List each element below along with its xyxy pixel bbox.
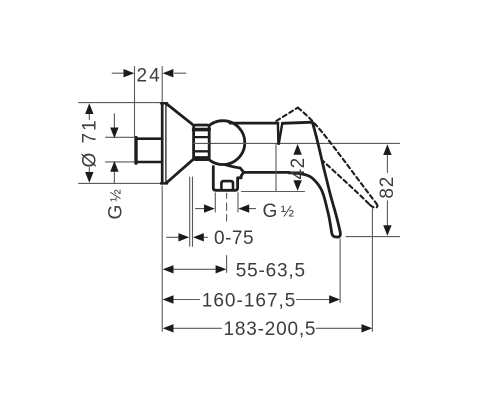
escutcheon cone <box>166 104 193 183</box>
valve body dome circle <box>201 121 245 165</box>
extension line outlet center bottom <box>226 256 228 273</box>
dimension 0-75 <box>167 177 255 249</box>
dimension diameter 71 left <box>79 103 160 184</box>
handle lever solid <box>282 122 340 237</box>
svg-text:42: 42 <box>288 157 309 179</box>
dimension 42 handle <box>242 144 310 192</box>
wall union stub G1/2 <box>136 138 162 164</box>
svg-text:½: ½ <box>281 203 294 220</box>
escutcheon face plate <box>161 103 167 183</box>
handle pivot notch <box>278 123 282 144</box>
dimension G1/2 outlet <box>196 193 295 222</box>
extension line dashed tip <box>371 209 373 332</box>
svg-text:Ø 71: Ø 71 <box>80 118 101 167</box>
svg-text:160-167,5: 160-167,5 <box>202 290 297 311</box>
wire centerline main axis <box>194 142 400 144</box>
extension line escutcheon bottom <box>161 186 163 331</box>
svg-text:G: G <box>106 205 127 220</box>
svg-text:183-200,5: 183-200,5 <box>224 319 317 340</box>
svg-text:G: G <box>263 201 278 222</box>
svg-text:55-63,5: 55-63,5 <box>236 260 306 281</box>
dimension 82 right <box>346 144 400 236</box>
handle dashed open position <box>276 108 377 208</box>
svg-text:82: 82 <box>377 176 398 199</box>
union nut knurled ring <box>194 125 210 160</box>
body housing top edge <box>230 122 278 125</box>
dimension 160-167,5 <box>163 290 340 311</box>
dimension G1/2 wall stub left <box>106 114 135 220</box>
svg-text:24: 24 <box>137 66 162 87</box>
dimension 55-63,5 <box>163 260 306 281</box>
body housing bottom contour and outlet step <box>226 165 290 178</box>
dimension 183-200,5 <box>163 319 373 340</box>
outlet centerline dash-dot <box>226 193 228 221</box>
extension line handle tip <box>339 239 341 303</box>
dimension 24 top <box>112 66 186 138</box>
outlet flange and nut <box>213 167 237 191</box>
svg-text:½: ½ <box>107 189 124 202</box>
svg-text:0-75: 0-75 <box>214 228 254 249</box>
